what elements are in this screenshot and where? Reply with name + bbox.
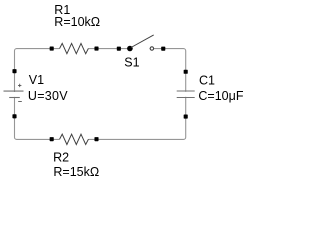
battery V1 minus sign <box>18 101 22 103</box>
svg-text:R2: R2 <box>53 151 69 165</box>
wire gap for capacitor C1 <box>184 92 188 97</box>
svg-text:U=30V: U=30V <box>28 89 68 103</box>
switch S1 pin square left <box>117 47 121 51</box>
svg-text:S1: S1 <box>124 56 139 70</box>
wire gap for battery V1 <box>13 92 17 97</box>
svg-text:C=10μF: C=10μF <box>198 89 243 103</box>
capacitor C1 bottom plate <box>177 97 195 99</box>
switch S1 pin square right <box>161 47 165 51</box>
battery V1 pin square bottom <box>12 114 16 118</box>
battery V1 plus sign <box>18 84 21 87</box>
resistor R2 pin square left <box>50 137 54 141</box>
resistor R1 pin square right <box>94 47 98 51</box>
battery V1 pin square top <box>12 69 16 73</box>
switch S1 open contact circle <box>150 47 153 50</box>
capacitor C1 top plate <box>177 90 195 92</box>
resistor R2 pin square right <box>94 137 98 141</box>
wire gap for switch S1 <box>133 47 150 50</box>
svg-text:R=15kΩ: R=15kΩ <box>53 165 99 179</box>
battery V1 short plate (negative) <box>9 97 20 99</box>
battery V1 long plate (positive) <box>4 90 24 92</box>
switch S1 lever <box>131 35 154 48</box>
svg-text:R=10kΩ: R=10kΩ <box>54 15 100 29</box>
capacitor C1 pin square bottom <box>184 115 188 119</box>
svg-text:V1: V1 <box>29 73 44 87</box>
resistor R1 pin square left <box>50 47 54 51</box>
wire loop (outer rectangle) <box>15 49 186 140</box>
svg-text:C1: C1 <box>199 74 215 88</box>
wire gap for resistor R2 <box>59 138 89 141</box>
resistor R1 <box>60 43 89 53</box>
resistor R2 <box>60 134 89 144</box>
wire gap for resistor R1 <box>59 47 89 50</box>
capacitor C1 pin square top <box>184 70 188 74</box>
switch S1 pivot dot <box>127 46 133 52</box>
